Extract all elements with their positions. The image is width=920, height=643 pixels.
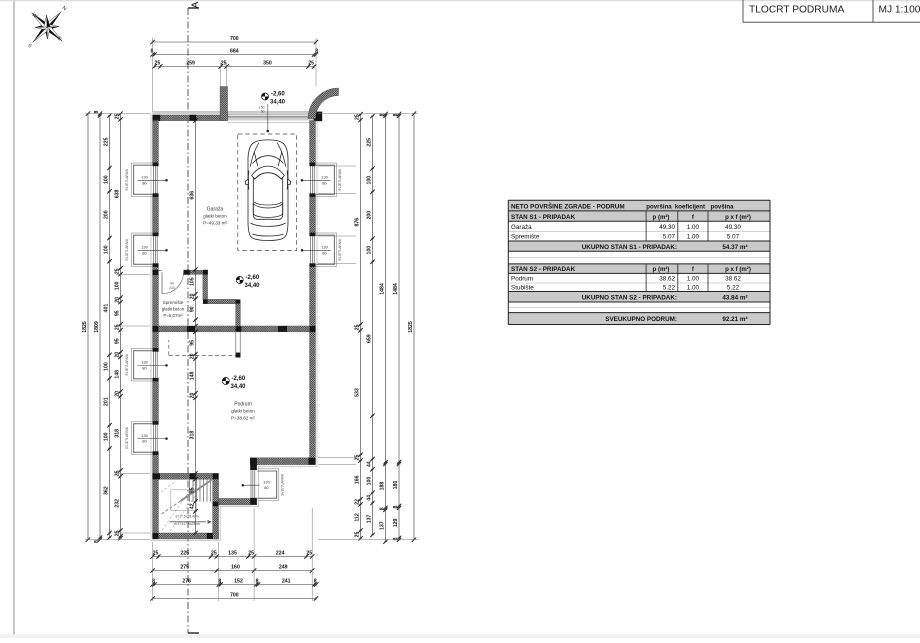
svg-text:STAN S1 - PRIPADAK: STAN S1 - PRIPADAK	[511, 214, 576, 221]
svg-text:350: 350	[263, 61, 272, 67]
svg-text:130: 130	[141, 245, 148, 250]
svg-text:90: 90	[170, 282, 174, 286]
svg-text:p x f (m²): p x f (m²)	[725, 214, 751, 221]
svg-text:v=17x17,5x28cm: v=17x17,5x28cm	[174, 522, 200, 526]
svg-text:25: 25	[155, 61, 161, 67]
page top edge	[0, 0, 920, 2]
outline foundation	[151, 113, 317, 541]
svg-text:8: 8	[315, 49, 318, 55]
svg-text:180: 180	[393, 481, 399, 490]
svg-text:100: 100	[115, 281, 121, 290]
svg-text:49.30: 49.30	[725, 224, 741, 231]
svg-text:Podrum: Podrum	[234, 402, 252, 408]
svg-text:SVEUKUPNO PODRUM:: SVEUKUPNO PODRUM:	[605, 316, 677, 323]
svg-text:188: 188	[380, 482, 386, 491]
svg-text:Garaža: Garaža	[207, 207, 224, 213]
svg-text:SVJETLARNIK: SVJETLARNIK	[125, 168, 129, 191]
wall bottom blocks	[153, 533, 159, 539]
svg-text:318: 318	[190, 431, 196, 440]
svg-text:684: 684	[230, 49, 239, 55]
wall right seg2	[310, 194, 316, 237]
wall stair right	[213, 479, 219, 539]
wall top	[153, 115, 228, 121]
svg-text:112: 112	[355, 513, 361, 521]
svg-text:105: 105	[190, 277, 196, 286]
dim top row3	[155, 66, 315, 68]
svg-text:224: 224	[276, 551, 285, 557]
marker leader	[267, 104, 269, 131]
dim right 1825	[413, 114, 415, 540]
svg-text:130: 130	[321, 175, 328, 180]
svg-text:25: 25	[248, 551, 254, 557]
svg-text:povšina: povšina	[710, 203, 734, 210]
svg-text:92.21 m²: 92.21 m²	[722, 316, 747, 323]
wall bottom	[153, 533, 219, 539]
svg-text:20: 20	[115, 352, 121, 358]
svg-text:5.07: 5.07	[727, 234, 740, 241]
svg-text:Garaža: Garaža	[511, 224, 532, 231]
partition stub P5	[236, 332, 240, 353]
wall middle blocks	[153, 326, 159, 332]
svg-text:8: 8	[393, 505, 399, 508]
svg-text:166: 166	[355, 475, 361, 484]
svg-text:-2,60: -2,60	[246, 275, 260, 281]
dim left extensions	[85, 113, 150, 115]
svg-text:90: 90	[190, 306, 196, 312]
svg-text:8: 8	[94, 110, 100, 113]
partition vertical P2	[203, 275, 208, 300]
staircase	[189, 479, 191, 502]
svg-text:Spremište: Spremište	[511, 234, 540, 241]
svg-text:TLOCRT PODRUMA: TLOCRT PODRUMA	[749, 5, 844, 16]
svg-text:42: 42	[190, 503, 196, 509]
dim top 700	[153, 41, 316, 43]
svg-text:152: 152	[234, 579, 243, 585]
svg-text:38.62: 38.62	[725, 276, 741, 283]
svg-text:43.84 m²: 43.84 m²	[722, 295, 747, 302]
wall left seg5	[153, 452, 159, 539]
svg-text:5.22: 5.22	[663, 285, 676, 292]
dim top 684	[153, 54, 316, 56]
block garage door right	[314, 112, 322, 122]
svg-text:8: 8	[218, 579, 221, 585]
compass rose	[12, 0, 82, 63]
svg-text:100: 100	[104, 362, 110, 371]
svg-text:Stubište: Stubište	[511, 285, 534, 292]
svg-text:200: 200	[104, 210, 110, 219]
svg-text:80: 80	[142, 180, 147, 185]
svg-text:25: 25	[115, 324, 121, 330]
svg-text:100: 100	[104, 432, 110, 441]
svg-text:34,40: 34,40	[231, 384, 247, 390]
svg-text:148: 148	[190, 371, 196, 380]
dim left segments	[109, 116, 111, 538]
parking space dashed	[238, 134, 297, 250]
svg-text:5.22: 5.22	[727, 285, 740, 292]
wall left seg3	[153, 264, 159, 352]
wall stair top	[153, 473, 219, 479]
garage door	[228, 117, 314, 120]
svg-text:700: 700	[230, 593, 239, 599]
svg-text:glatki beton: glatki beton	[203, 214, 227, 219]
svg-text:318: 318	[115, 429, 121, 438]
wall right seg3	[310, 264, 316, 465]
wall left seg2	[153, 194, 159, 237]
dim right extensions	[318, 113, 418, 115]
svg-text:80: 80	[142, 439, 147, 444]
svg-text:876: 876	[355, 218, 361, 227]
svg-text:25: 25	[355, 324, 361, 330]
svg-text:1825: 1825	[408, 321, 414, 333]
elevation marker garage	[236, 277, 243, 284]
svg-text:80: 80	[142, 250, 147, 255]
svg-text:80: 80	[264, 485, 269, 490]
svg-text:površina: površina	[646, 203, 672, 210]
svg-text:249: 249	[279, 565, 288, 571]
elevation marker ramp	[262, 93, 269, 100]
wall left seg4	[153, 378, 159, 425]
svg-text:80: 80	[322, 250, 327, 255]
svg-text:659: 659	[367, 334, 373, 343]
svg-text:130: 130	[321, 245, 328, 250]
svg-text:1.00: 1.00	[687, 276, 700, 283]
svg-text:95: 95	[115, 310, 121, 316]
svg-text:UKUPNO STAN S2 - PRIPADAK:: UKUPNO STAN S2 - PRIPADAK:	[582, 295, 677, 302]
section line A	[187, 8, 189, 633]
svg-text:130: 130	[141, 433, 148, 438]
svg-text:130: 130	[141, 360, 148, 365]
svg-text:SVJETLARNIK: SVJETLARNIK	[125, 353, 129, 376]
svg-text:P=5,07m²: P=5,07m²	[163, 313, 183, 318]
svg-text:glatki beton: glatki beton	[231, 409, 255, 414]
svg-text:MJ 1:100: MJ 1:100	[879, 5, 920, 16]
svg-text:25: 25	[308, 61, 314, 67]
svg-text:25: 25	[355, 114, 361, 120]
svg-text:p (m²): p (m²)	[653, 266, 670, 273]
svg-text:1.00: 1.00	[687, 224, 700, 231]
page bottom edge	[0, 635, 920, 639]
svg-text:SVJETLARNIK: SVJETLARNIK	[281, 473, 285, 496]
svg-text:259: 259	[186, 61, 195, 67]
dim left 1809	[99, 114, 101, 540]
svg-text:SVJETLARNIK: SVJETLARNIK	[125, 426, 129, 449]
svg-text:P=49,33 m²: P=49,33 m²	[203, 221, 227, 226]
svg-text:636: 636	[190, 191, 196, 200]
svg-text:225: 225	[367, 138, 373, 147]
svg-text:8: 8	[256, 579, 259, 585]
svg-text:200: 200	[367, 211, 373, 220]
wall stair right block	[213, 502, 219, 507]
svg-text:148: 148	[115, 370, 121, 379]
svg-text:p (m²): p (m²)	[653, 214, 670, 221]
svg-text:8: 8	[314, 579, 317, 585]
light well L2	[153, 233, 159, 236]
svg-text:100: 100	[104, 175, 110, 184]
light well R2	[310, 233, 316, 236]
svg-text:34,40: 34,40	[270, 100, 286, 106]
light well L1	[153, 163, 159, 166]
svg-text:25: 25	[211, 551, 217, 557]
dim bottom 700	[153, 598, 316, 600]
svg-text:25: 25	[306, 551, 312, 557]
svg-text:25: 25	[115, 268, 121, 274]
dim right 1	[360, 114, 362, 538]
svg-text:137: 137	[367, 514, 373, 523]
svg-text:25: 25	[153, 551, 159, 557]
dim top extensions	[152, 38, 154, 112]
svg-text:401: 401	[104, 304, 110, 313]
svg-text:700: 700	[230, 36, 239, 42]
title block frame	[742, 0, 744, 22]
svg-text:8: 8	[380, 507, 386, 510]
dim interior chain	[195, 121, 197, 326]
svg-text:22: 22	[355, 499, 361, 505]
svg-text:210: 210	[169, 286, 175, 290]
wall left upper	[153, 121, 159, 166]
dim right 4	[398, 114, 400, 540]
dim bottom extensions	[152, 542, 154, 601]
svg-text:241: 241	[282, 579, 291, 585]
svg-text:362: 362	[104, 486, 110, 495]
insulation band top wall	[153, 112, 314, 115]
svg-text:95: 95	[115, 338, 121, 344]
svg-text:1825: 1825	[82, 321, 88, 333]
svg-text:Spremište: Spremište	[163, 300, 184, 305]
area table	[508, 200, 770, 211]
svg-text:100: 100	[104, 245, 110, 254]
svg-text:1.00: 1.00	[687, 234, 700, 241]
svg-text:44: 44	[367, 495, 373, 501]
svg-text:20: 20	[190, 393, 196, 399]
wall right upper	[310, 121, 316, 166]
svg-text:STAN S2 - PRIPADAK: STAN S2 - PRIPADAK	[511, 266, 576, 273]
svg-text:-2,60: -2,60	[271, 92, 285, 98]
page left border	[13, 0, 15, 638]
svg-text:8: 8	[393, 537, 399, 540]
dim right 3	[385, 114, 387, 542]
svg-text:1809: 1809	[94, 321, 100, 333]
svg-text:38.62: 38.62	[659, 276, 675, 283]
svg-text:1484: 1484	[393, 283, 399, 295]
wall podrum lower-right blocks	[250, 458, 257, 465]
car top view	[245, 140, 291, 241]
dim bottom row1	[153, 556, 313, 558]
svg-text:UKUPNO STAN S1 - PRIPADAK:: UKUPNO STAN S1 - PRIPADAK:	[582, 244, 677, 251]
svg-text:34,40: 34,40	[245, 283, 261, 289]
svg-text:201: 201	[104, 397, 110, 406]
svg-text:20: 20	[115, 297, 121, 303]
wall podrum lower-right	[250, 458, 315, 465]
svg-text:275: 275	[180, 565, 189, 571]
partition corner block	[203, 299, 208, 304]
svg-text:232: 232	[115, 499, 121, 508]
svg-text:100: 100	[367, 176, 373, 185]
svg-text:8: 8	[151, 49, 154, 55]
partition horizontal P3	[208, 299, 236, 303]
svg-text:SVJETLARNIK: SVJETLARNIK	[338, 168, 342, 191]
svg-text:8: 8	[94, 540, 100, 543]
svg-text:25: 25	[355, 532, 361, 538]
svg-text:80: 80	[322, 180, 327, 185]
light well R1	[310, 163, 316, 166]
svg-text:20: 20	[190, 353, 196, 359]
svg-text:glatki beton: glatki beton	[162, 307, 185, 312]
partition vertical P4	[236, 304, 241, 326]
svg-text:SVJETLARNIK: SVJETLARNIK	[338, 238, 342, 261]
svg-text:135: 135	[228, 551, 237, 557]
ramp wall arc	[308, 88, 339, 119]
svg-text:225: 225	[104, 137, 110, 146]
elevation marker podrum	[222, 378, 229, 385]
svg-text:SVJETLARNIK: SVJETLARNIK	[125, 238, 129, 261]
svg-text:1484: 1484	[380, 283, 386, 295]
svg-text:137: 137	[380, 521, 386, 530]
svg-text:54.37 m²: 54.37 m²	[722, 244, 747, 251]
svg-text:95: 95	[190, 340, 196, 346]
svg-text:-2,60: -2,60	[232, 376, 246, 382]
dim left fine	[120, 114, 122, 538]
svg-text:20: 20	[115, 391, 121, 397]
wall middle	[153, 326, 316, 332]
svg-text:276: 276	[182, 579, 191, 585]
dim right 2	[372, 116, 374, 535]
dim bottom row3	[153, 584, 317, 586]
svg-text:129: 129	[393, 518, 399, 527]
svg-text:25: 25	[221, 61, 227, 67]
svg-text:130: 130	[141, 175, 148, 180]
svg-text:160: 160	[231, 565, 240, 571]
svg-text:25: 25	[115, 114, 121, 120]
corner block top-left	[153, 115, 161, 121]
svg-text:A: A	[190, 1, 201, 8]
light well L4	[153, 421, 159, 424]
svg-text:1.00: 1.00	[687, 285, 700, 292]
light well bottom	[250, 464, 257, 470]
svg-text:44: 44	[367, 461, 373, 467]
svg-text:100: 100	[367, 246, 373, 255]
svg-text:5.07: 5.07	[663, 234, 676, 241]
partition spremiste top	[184, 270, 191, 275]
pier top wall	[190, 115, 197, 121]
svg-text:100: 100	[367, 477, 373, 486]
dashed opening line	[169, 354, 236, 356]
svg-text:533: 533	[355, 388, 361, 397]
wall podrum bottom	[219, 499, 251, 505]
dim left 1825	[87, 114, 89, 540]
svg-text:p x f (m²): p x f (m²)	[725, 266, 751, 273]
svg-text:P=38,62 m²: P=38,62 m²	[231, 416, 255, 421]
svg-text:80: 80	[142, 365, 147, 370]
svg-text:50: 50	[261, 110, 265, 114]
svg-text:49.30: 49.30	[659, 224, 675, 231]
svg-text:NETO POVRŠINE ZGRADE - PODRUM: NETO POVRŠINE ZGRADE - PODRUM	[511, 201, 625, 210]
svg-text:95: 95	[190, 487, 196, 493]
light well L3	[153, 348, 159, 351]
partition corner block2	[236, 299, 241, 304]
svg-text:koeficijent: koeficijent	[675, 203, 705, 210]
dim bottom row2	[153, 570, 313, 572]
svg-text:Podrum: Podrum	[511, 276, 533, 283]
svg-text:20: 20	[190, 293, 196, 299]
door arc spremiste	[162, 272, 184, 294]
svg-text:25: 25	[355, 455, 361, 461]
svg-text:120: 120	[263, 479, 270, 484]
wall stair top blocks	[153, 473, 160, 479]
svg-text:225: 225	[180, 551, 189, 557]
wall stub above	[220, 87, 227, 121]
block left wall at partition	[153, 270, 159, 275]
svg-text:638: 638	[115, 189, 121, 198]
